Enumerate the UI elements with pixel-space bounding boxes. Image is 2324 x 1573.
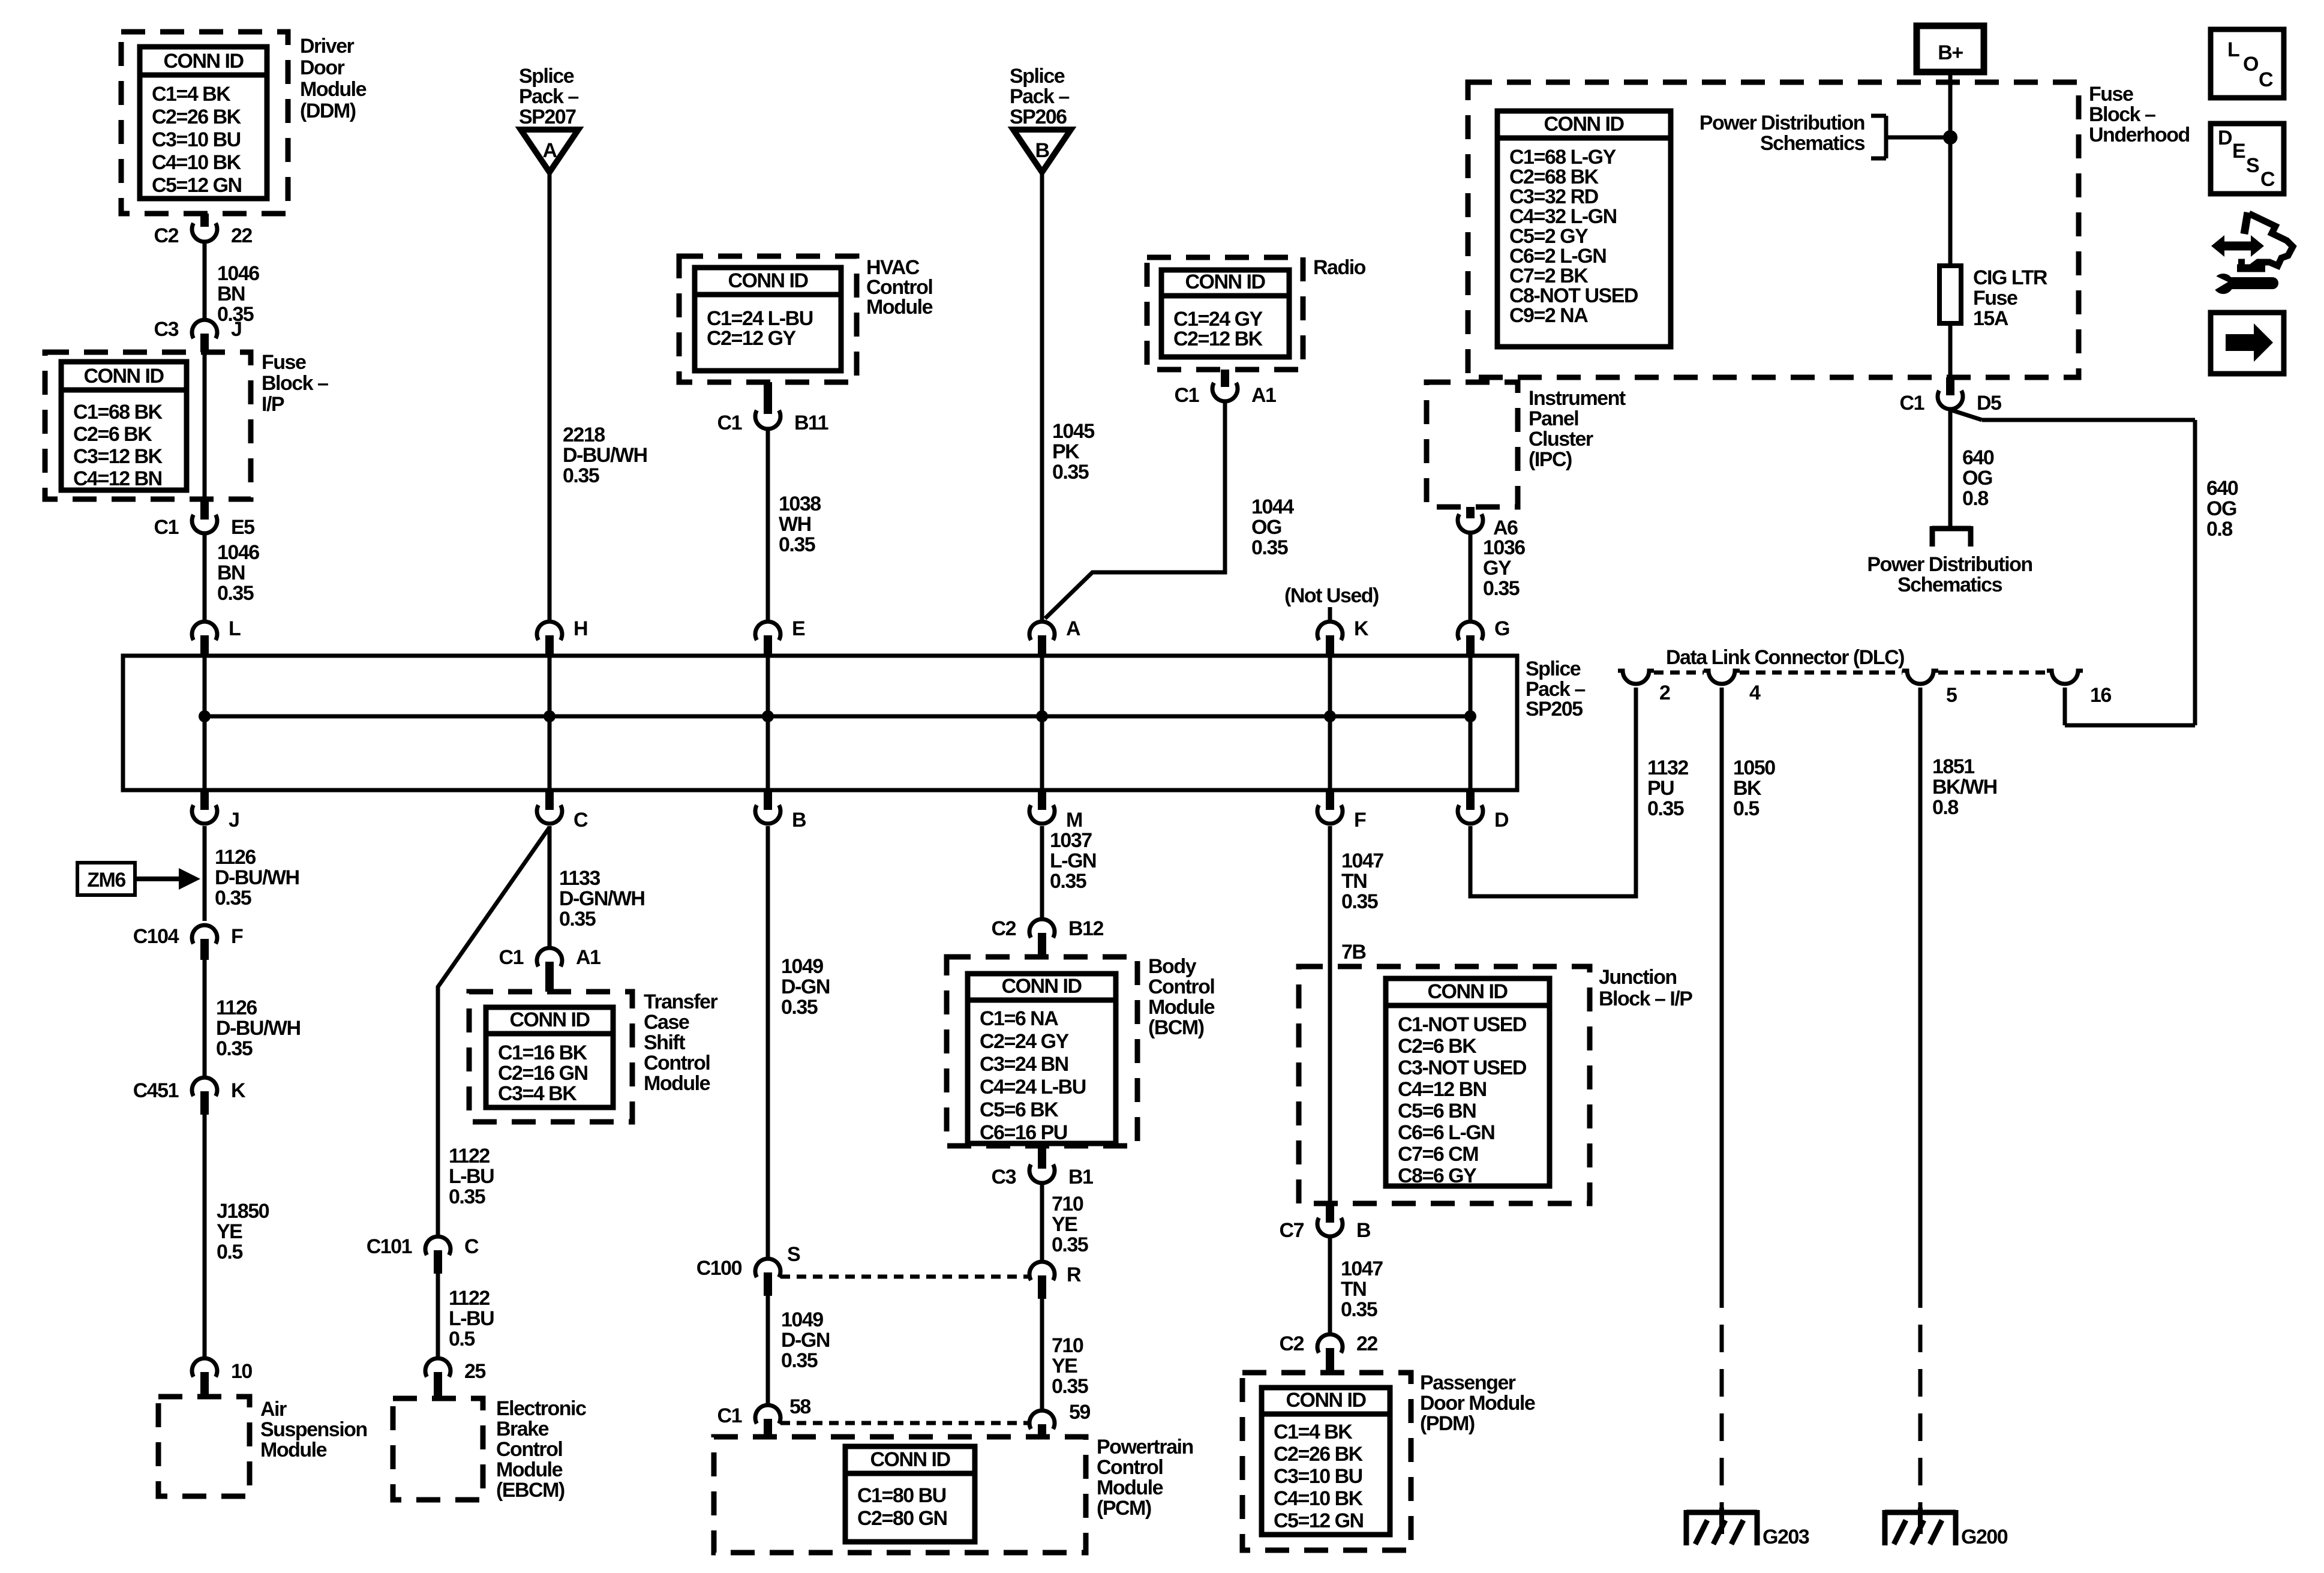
svg-text:Control: Control bbox=[644, 1052, 710, 1074]
svg-text:0.35: 0.35 bbox=[1483, 577, 1520, 600]
svg-text:0.35: 0.35 bbox=[216, 1037, 253, 1060]
svg-text:0.35: 0.35 bbox=[779, 533, 815, 556]
svg-text:C4=10 BK: C4=10 BK bbox=[152, 151, 242, 174]
svg-text:YE: YE bbox=[1052, 1355, 1077, 1377]
svg-text:D-BU/WH: D-BU/WH bbox=[215, 866, 299, 889]
svg-text:G: G bbox=[1494, 617, 1509, 640]
svg-text:K: K bbox=[231, 1079, 246, 1102]
svg-text:Body: Body bbox=[1148, 955, 1197, 978]
svg-text:C2=26 BK: C2=26 BK bbox=[152, 106, 242, 128]
svg-text:Driver: Driver bbox=[300, 35, 355, 58]
svg-text:(PCM): (PCM) bbox=[1097, 1497, 1151, 1520]
svg-text:0.5: 0.5 bbox=[449, 1328, 475, 1350]
svg-text:15A: 15A bbox=[1973, 307, 2008, 330]
svg-text:C1-NOT USED: C1-NOT USED bbox=[1398, 1013, 1527, 1036]
svg-text:0.35: 0.35 bbox=[1052, 461, 1089, 484]
svg-text:R: R bbox=[1067, 1263, 1081, 1286]
svg-text:C1=68 BK: C1=68 BK bbox=[73, 401, 163, 424]
svg-text:Module: Module bbox=[644, 1072, 710, 1095]
svg-text:1049: 1049 bbox=[781, 1308, 823, 1331]
svg-text:Block –: Block – bbox=[262, 372, 328, 395]
svg-text:Schematics: Schematics bbox=[1897, 574, 2002, 596]
svg-text:Module: Module bbox=[1097, 1476, 1163, 1499]
svg-text:TN: TN bbox=[1341, 1278, 1366, 1301]
svg-text:0.35: 0.35 bbox=[781, 1349, 818, 1372]
svg-text:C5=6 BK: C5=6 BK bbox=[980, 1098, 1059, 1121]
svg-text:0.35: 0.35 bbox=[1251, 536, 1288, 559]
svg-text:(Not Used): (Not Used) bbox=[1284, 584, 1379, 607]
svg-text:C100: C100 bbox=[696, 1257, 742, 1280]
svg-text:C2=16 GN: C2=16 GN bbox=[498, 1062, 588, 1085]
svg-text:(BCM): (BCM) bbox=[1148, 1016, 1204, 1039]
svg-text:C3=24 BN: C3=24 BN bbox=[980, 1053, 1068, 1076]
svg-text:CONN ID: CONN ID bbox=[1185, 271, 1265, 293]
svg-text:7B: 7B bbox=[1341, 941, 1366, 963]
svg-text:Panel: Panel bbox=[1529, 407, 1578, 430]
svg-text:F: F bbox=[231, 925, 243, 948]
svg-text:A1: A1 bbox=[1251, 384, 1276, 407]
svg-text:640: 640 bbox=[2206, 477, 2238, 500]
svg-text:0.35: 0.35 bbox=[1647, 797, 1684, 820]
svg-text:1046: 1046 bbox=[217, 541, 259, 564]
svg-text:SP205: SP205 bbox=[1526, 698, 1583, 721]
svg-text:C1=16 BK: C1=16 BK bbox=[498, 1041, 588, 1064]
svg-text:M: M bbox=[1066, 809, 1082, 831]
svg-text:C5=6 BN: C5=6 BN bbox=[1398, 1100, 1476, 1122]
svg-text:C5=12 GN: C5=12 GN bbox=[1274, 1509, 1364, 1532]
svg-text:OG: OG bbox=[1251, 516, 1281, 539]
svg-text:Schematics: Schematics bbox=[1760, 132, 1865, 155]
svg-text:0.35: 0.35 bbox=[1052, 1375, 1088, 1398]
svg-text:1132: 1132 bbox=[1647, 757, 1688, 779]
svg-text:CONN ID: CONN ID bbox=[1286, 1389, 1366, 1412]
svg-text:C4=10 BK: C4=10 BK bbox=[1274, 1487, 1364, 1510]
svg-text:E: E bbox=[792, 617, 805, 640]
svg-text:5: 5 bbox=[1946, 684, 1957, 707]
svg-text:CIG LTR: CIG LTR bbox=[1973, 266, 2047, 289]
svg-text:B11: B11 bbox=[794, 412, 828, 434]
svg-text:640: 640 bbox=[1962, 446, 1994, 469]
svg-text:Control: Control bbox=[496, 1438, 562, 1461]
svg-text:C1: C1 bbox=[1900, 392, 1924, 415]
svg-text:Door Module: Door Module bbox=[1420, 1392, 1535, 1415]
svg-text:Module: Module bbox=[260, 1439, 327, 1461]
svg-text:1047: 1047 bbox=[1341, 1257, 1383, 1280]
svg-text:1049: 1049 bbox=[781, 955, 823, 978]
svg-text:L-GN: L-GN bbox=[1050, 849, 1096, 872]
svg-text:1126: 1126 bbox=[216, 996, 257, 1019]
svg-text:K: K bbox=[1354, 617, 1369, 640]
svg-text:C2=80 GN: C2=80 GN bbox=[857, 1507, 947, 1530]
svg-text:C2: C2 bbox=[1280, 1332, 1304, 1355]
svg-text:1122: 1122 bbox=[449, 1287, 490, 1310]
svg-text:C1=4 BK: C1=4 BK bbox=[1274, 1421, 1353, 1443]
svg-text:C2=12 BK: C2=12 BK bbox=[1173, 328, 1263, 350]
svg-text:C1: C1 bbox=[717, 1404, 742, 1427]
svg-text:0.5: 0.5 bbox=[217, 1241, 242, 1263]
svg-text:BN: BN bbox=[217, 283, 245, 305]
svg-text:Splice: Splice bbox=[1010, 65, 1065, 88]
svg-text:YE: YE bbox=[217, 1220, 242, 1243]
svg-text:25: 25 bbox=[464, 1360, 485, 1383]
svg-text:C: C bbox=[2260, 168, 2275, 191]
svg-text:(DDM): (DDM) bbox=[300, 100, 356, 122]
svg-text:Data Link Connector (DLC): Data Link Connector (DLC) bbox=[1666, 646, 1904, 669]
svg-text:WH: WH bbox=[779, 513, 811, 536]
svg-text:C1: C1 bbox=[1175, 384, 1199, 407]
svg-text:C3: C3 bbox=[154, 318, 179, 341]
svg-text:S: S bbox=[787, 1243, 800, 1266]
svg-text:E: E bbox=[2232, 140, 2245, 163]
svg-text:10: 10 bbox=[231, 1360, 252, 1383]
svg-text:D-GN: D-GN bbox=[781, 1329, 830, 1352]
svg-text:Module: Module bbox=[496, 1458, 563, 1481]
svg-text:C101: C101 bbox=[367, 1235, 412, 1258]
svg-text:Brake: Brake bbox=[496, 1418, 549, 1440]
svg-text:59: 59 bbox=[1069, 1401, 1090, 1424]
svg-text:710: 710 bbox=[1052, 1334, 1083, 1357]
svg-text:C: C bbox=[574, 809, 588, 831]
svg-text:B1: B1 bbox=[1068, 1166, 1093, 1188]
svg-text:1050: 1050 bbox=[1733, 757, 1775, 779]
svg-text:S: S bbox=[2246, 154, 2259, 177]
svg-text:1037: 1037 bbox=[1050, 829, 1092, 852]
svg-text:Underhood: Underhood bbox=[2089, 124, 2190, 146]
svg-text:Fuse: Fuse bbox=[262, 351, 306, 374]
svg-text:Control: Control bbox=[1148, 975, 1214, 998]
svg-text:C2=26 BK: C2=26 BK bbox=[1274, 1443, 1364, 1466]
svg-text:GY: GY bbox=[1483, 557, 1512, 580]
svg-text:OG: OG bbox=[1962, 467, 1992, 490]
svg-text:Junction: Junction bbox=[1599, 966, 1677, 989]
svg-text:G200: G200 bbox=[1961, 1526, 2008, 1548]
svg-text:0.35: 0.35 bbox=[1341, 1298, 1377, 1321]
svg-text:CONN ID: CONN ID bbox=[163, 50, 244, 73]
svg-text:0.35: 0.35 bbox=[1052, 1233, 1088, 1256]
svg-text:0.35: 0.35 bbox=[1050, 870, 1086, 893]
svg-text:C4=12 BN: C4=12 BN bbox=[1398, 1078, 1487, 1101]
svg-text:C1=80 BU: C1=80 BU bbox=[857, 1484, 946, 1507]
svg-text:C3=10 BU: C3=10 BU bbox=[152, 128, 241, 151]
svg-text:0.35: 0.35 bbox=[781, 996, 818, 1019]
svg-text:Air: Air bbox=[260, 1398, 287, 1421]
svg-text:C: C bbox=[2259, 68, 2273, 91]
svg-text:1045: 1045 bbox=[1052, 420, 1094, 443]
svg-text:58: 58 bbox=[789, 1395, 810, 1418]
svg-text:0.5: 0.5 bbox=[1733, 797, 1759, 820]
svg-text:C451: C451 bbox=[133, 1079, 179, 1102]
svg-text:J: J bbox=[229, 809, 239, 831]
svg-text:L-BU: L-BU bbox=[449, 1165, 494, 1188]
svg-text:C1: C1 bbox=[154, 516, 179, 539]
svg-text:1038: 1038 bbox=[779, 493, 821, 515]
svg-text:C2=6 BK: C2=6 BK bbox=[1398, 1035, 1477, 1058]
svg-text:Instrument: Instrument bbox=[1529, 387, 1626, 410]
svg-text:Splice: Splice bbox=[519, 65, 574, 88]
svg-text:OG: OG bbox=[2206, 497, 2236, 520]
svg-text:O: O bbox=[2243, 53, 2259, 76]
svg-text:B: B bbox=[1356, 1219, 1371, 1242]
svg-text:A: A bbox=[542, 139, 557, 162]
svg-text:C6=16 PU: C6=16 PU bbox=[980, 1121, 1067, 1144]
svg-text:B: B bbox=[792, 809, 806, 831]
svg-text:2218: 2218 bbox=[563, 424, 605, 446]
svg-text:22: 22 bbox=[231, 224, 252, 247]
svg-text:Powertrain: Powertrain bbox=[1097, 1436, 1193, 1458]
svg-text:C1=6 NA: C1=6 NA bbox=[980, 1007, 1058, 1030]
svg-text:D-BU/WH: D-BU/WH bbox=[563, 444, 647, 467]
svg-text:Electronic: Electronic bbox=[496, 1397, 586, 1420]
svg-text:C2: C2 bbox=[992, 917, 1016, 940]
svg-text:0.8: 0.8 bbox=[1932, 796, 1958, 819]
svg-text:Radio: Radio bbox=[1313, 256, 1366, 279]
svg-text:TN: TN bbox=[1341, 870, 1367, 893]
svg-text:Block –: Block – bbox=[2089, 103, 2155, 126]
svg-text:YE: YE bbox=[1052, 1213, 1077, 1236]
svg-text:Shift: Shift bbox=[644, 1031, 685, 1054]
svg-text:B12: B12 bbox=[1068, 917, 1103, 940]
svg-text:C3=12 BK: C3=12 BK bbox=[73, 445, 163, 468]
svg-text:Cluster: Cluster bbox=[1529, 428, 1593, 451]
svg-text:PK: PK bbox=[1052, 440, 1080, 463]
svg-text:L: L bbox=[2227, 38, 2239, 61]
svg-text:C3=4 BK: C3=4 BK bbox=[498, 1082, 577, 1105]
svg-text:Splice: Splice bbox=[1526, 658, 1581, 680]
svg-text:1047: 1047 bbox=[1341, 849, 1383, 872]
svg-text:Passenger: Passenger bbox=[1420, 1371, 1516, 1394]
svg-text:C3-NOT USED: C3-NOT USED bbox=[1398, 1056, 1527, 1079]
svg-text:C2: C2 bbox=[154, 224, 179, 247]
svg-text:L: L bbox=[229, 617, 241, 640]
svg-text:Module: Module bbox=[1148, 996, 1215, 1019]
svg-text:C4=12 BN: C4=12 BN bbox=[73, 467, 162, 490]
svg-text:B: B bbox=[1035, 139, 1049, 162]
svg-text:C5=12 GN: C5=12 GN bbox=[152, 174, 242, 197]
svg-text:A: A bbox=[1066, 617, 1080, 640]
svg-text:CONN ID: CONN ID bbox=[1001, 975, 1082, 998]
svg-text:BK: BK bbox=[1733, 777, 1762, 800]
svg-text:BN: BN bbox=[217, 562, 245, 584]
svg-text:Block – I/P: Block – I/P bbox=[1599, 987, 1692, 1010]
svg-text:Suspension: Suspension bbox=[260, 1418, 367, 1441]
svg-text:Fuse: Fuse bbox=[1973, 287, 2017, 310]
svg-text:L-BU: L-BU bbox=[449, 1307, 494, 1330]
svg-text:C3=10 BU: C3=10 BU bbox=[1274, 1465, 1362, 1488]
svg-text:H: H bbox=[574, 617, 587, 640]
svg-text:1044: 1044 bbox=[1251, 496, 1294, 518]
svg-text:0.35: 0.35 bbox=[215, 887, 251, 909]
svg-text:0.35: 0.35 bbox=[217, 582, 254, 605]
svg-text:C3: C3 bbox=[992, 1166, 1016, 1188]
svg-text:Transfer: Transfer bbox=[644, 990, 717, 1013]
svg-text:0.8: 0.8 bbox=[2206, 518, 2232, 541]
svg-text:Pack –: Pack – bbox=[519, 85, 578, 108]
svg-text:4: 4 bbox=[1749, 682, 1761, 704]
svg-text:G203: G203 bbox=[1762, 1526, 1809, 1548]
svg-text:0.35: 0.35 bbox=[559, 908, 596, 930]
svg-text:ZM6: ZM6 bbox=[87, 869, 125, 891]
svg-text:(IPC): (IPC) bbox=[1529, 448, 1572, 471]
svg-text:0.35: 0.35 bbox=[449, 1185, 485, 1208]
svg-text:C: C bbox=[464, 1235, 479, 1258]
svg-text:E5: E5 bbox=[231, 516, 254, 539]
svg-text:1126: 1126 bbox=[215, 846, 256, 869]
svg-text:C7: C7 bbox=[1280, 1219, 1304, 1242]
svg-text:I/P: I/P bbox=[262, 393, 284, 416]
svg-text:C8=6 GY: C8=6 GY bbox=[1398, 1164, 1477, 1187]
svg-text:D-BU/WH: D-BU/WH bbox=[216, 1017, 301, 1040]
svg-text:D-GN/WH: D-GN/WH bbox=[559, 887, 644, 910]
svg-text:(PDM): (PDM) bbox=[1420, 1412, 1475, 1435]
svg-text:F: F bbox=[1354, 809, 1366, 831]
svg-text:0.35: 0.35 bbox=[1341, 890, 1378, 913]
svg-text:B+: B+ bbox=[1938, 41, 1963, 64]
svg-text:C6=6 L-GN: C6=6 L-GN bbox=[1398, 1121, 1494, 1144]
svg-text:Control: Control bbox=[1097, 1456, 1163, 1479]
svg-text:J: J bbox=[231, 318, 241, 341]
svg-text:Power Distribution: Power Distribution bbox=[1867, 553, 2032, 576]
svg-text:C1: C1 bbox=[717, 412, 742, 434]
svg-text:D: D bbox=[2218, 127, 2232, 149]
svg-text:C9=2 NA: C9=2 NA bbox=[1509, 304, 1588, 327]
svg-text:PU: PU bbox=[1647, 777, 1674, 800]
svg-text:1133: 1133 bbox=[559, 867, 600, 890]
svg-text:C1=4 BK: C1=4 BK bbox=[152, 83, 231, 106]
svg-text:1046: 1046 bbox=[217, 262, 259, 285]
svg-text:A1: A1 bbox=[576, 946, 600, 969]
svg-text:Case: Case bbox=[644, 1011, 689, 1034]
svg-text:D: D bbox=[1494, 809, 1509, 831]
svg-text:(EBCM): (EBCM) bbox=[496, 1479, 565, 1502]
svg-text:Door: Door bbox=[300, 56, 345, 79]
svg-text:16: 16 bbox=[2090, 684, 2111, 707]
svg-text:0.35: 0.35 bbox=[563, 464, 599, 487]
svg-text:CONN ID: CONN ID bbox=[728, 269, 808, 292]
svg-text:2: 2 bbox=[1659, 682, 1670, 704]
svg-text:CONN ID: CONN ID bbox=[1544, 113, 1624, 136]
svg-text:22: 22 bbox=[1356, 1332, 1377, 1355]
svg-text:C2=12 GY: C2=12 GY bbox=[707, 327, 797, 350]
svg-text:CONN ID: CONN ID bbox=[83, 365, 164, 388]
svg-text:C2=6 BK: C2=6 BK bbox=[73, 423, 152, 446]
svg-text:SP206: SP206 bbox=[1010, 106, 1067, 128]
svg-text:Fuse: Fuse bbox=[2089, 83, 2133, 106]
svg-text:Module: Module bbox=[866, 296, 933, 319]
svg-text:C104: C104 bbox=[133, 925, 179, 948]
svg-text:0.8: 0.8 bbox=[1962, 487, 1988, 510]
svg-text:1036: 1036 bbox=[1483, 536, 1525, 559]
svg-text:SP207: SP207 bbox=[519, 106, 576, 128]
svg-text:C7=6 CM: C7=6 CM bbox=[1398, 1143, 1478, 1166]
svg-text:C2=24 GY: C2=24 GY bbox=[980, 1030, 1070, 1053]
svg-text:C4=24 L-BU: C4=24 L-BU bbox=[980, 1076, 1086, 1098]
svg-text:J1850: J1850 bbox=[217, 1200, 269, 1223]
svg-text:C1: C1 bbox=[499, 946, 524, 969]
svg-text:D5: D5 bbox=[1977, 392, 2001, 415]
svg-text:CONN ID: CONN ID bbox=[870, 1448, 950, 1471]
svg-text:1851: 1851 bbox=[1932, 755, 1974, 778]
svg-text:Pack –: Pack – bbox=[1010, 85, 1069, 108]
svg-text:CONN ID: CONN ID bbox=[509, 1008, 590, 1031]
svg-text:Power Distribution: Power Distribution bbox=[1700, 112, 1864, 134]
svg-text:710: 710 bbox=[1052, 1193, 1083, 1215]
svg-text:BK/WH: BK/WH bbox=[1932, 776, 1997, 798]
svg-text:CONN ID: CONN ID bbox=[1427, 980, 1508, 1003]
svg-text:D-GN: D-GN bbox=[781, 975, 830, 998]
svg-text:1122: 1122 bbox=[449, 1145, 490, 1167]
svg-text:Module: Module bbox=[300, 78, 367, 101]
